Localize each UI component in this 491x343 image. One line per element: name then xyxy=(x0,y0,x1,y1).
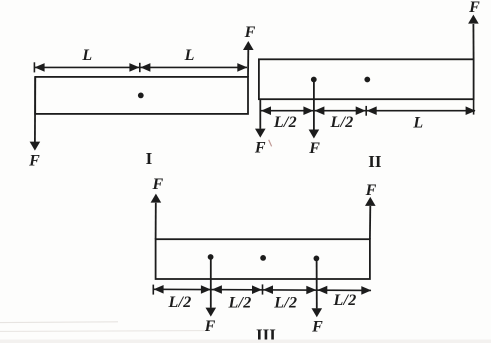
dimension arrowhead right (II) xyxy=(466,106,476,115)
center-of-mass dot (beam I) xyxy=(138,93,144,99)
svg-text:F: F xyxy=(244,24,256,41)
svg-text:F: F xyxy=(308,140,320,157)
force arrow F down at left end (I) xyxy=(34,77,36,142)
dimension line (beam I, spans 2L) xyxy=(35,66,247,68)
svg-text:L/2: L/2 xyxy=(273,114,297,131)
svg-text:I: I xyxy=(146,149,153,168)
stray pen mark near F (II) xyxy=(269,140,272,147)
svg-text:F: F xyxy=(254,139,266,156)
dimension line (beam II, below bar) xyxy=(260,110,475,112)
svg-text:F: F xyxy=(468,0,480,16)
svg-text:F: F xyxy=(204,318,216,335)
svg-text:F: F xyxy=(311,318,323,335)
dimension arrowhead right (I) xyxy=(237,63,247,72)
center dot b (beam III) xyxy=(260,255,266,261)
dimension arrowhead to t1-right (II) xyxy=(314,106,324,115)
force arrow F up at right end (III) xyxy=(369,206,371,239)
dimension arrowhead to t2-left (II) xyxy=(356,106,366,115)
dimension arrowhead to t2-right (II) xyxy=(367,106,377,115)
force arrow F up at left end (III) xyxy=(155,203,157,239)
faint scan shadow line upper (bottom-left) xyxy=(0,321,118,324)
svg-text:L/2: L/2 xyxy=(329,114,353,131)
dimension arrowhead to t3-left (III) xyxy=(306,286,316,295)
svg-text:L/2: L/2 xyxy=(227,294,251,311)
svg-text:L/2: L/2 xyxy=(167,294,191,311)
center dot a (beam II) xyxy=(311,77,317,83)
force arrow F down at 3L/2 (III) xyxy=(316,258,318,308)
dimension center tick (I) xyxy=(139,63,141,72)
dimension arrowhead to t1-left (III) xyxy=(201,285,211,294)
beam II (bar) xyxy=(259,59,474,99)
dimension tick t2 (II) xyxy=(365,106,367,116)
dimension end tick left (III) xyxy=(152,285,154,295)
svg-text:L: L xyxy=(184,47,195,64)
dimension arrowhead to t3-right (III) xyxy=(317,286,327,295)
faint scan shadow line lower (bottom-left) xyxy=(0,330,205,333)
dimension arrowhead to t2-left (III) xyxy=(252,285,262,294)
force arrow F up at right end (II) xyxy=(472,24,474,59)
beam III (bar) xyxy=(156,239,370,279)
force arrow F down at left end (II) xyxy=(259,99,261,129)
force arrow F up at right end (I) xyxy=(247,50,249,77)
force arrow F down at L/2 (II) xyxy=(313,80,315,130)
faint scan shadow band (bottom edge) xyxy=(0,340,491,343)
svg-text:F: F xyxy=(365,182,377,199)
center dot b (beam II) xyxy=(364,77,370,83)
force arrow F down at L/2 (III) xyxy=(210,257,212,308)
center dot c (beam III) xyxy=(314,256,320,262)
dimension end tick left (I) xyxy=(33,62,35,72)
svg-text:L/2: L/2 xyxy=(273,295,297,312)
dimension arrowhead to center-left (I) xyxy=(129,63,139,72)
dimension arrowhead to t2-right (III) xyxy=(263,285,273,294)
svg-text:F: F xyxy=(151,176,163,193)
dimension arrowhead to t1-right (III) xyxy=(212,285,222,294)
center dot a (beam III) xyxy=(208,254,214,260)
svg-text:L: L xyxy=(81,47,92,64)
svg-text:L: L xyxy=(412,115,423,132)
dimension tick t2 (III) xyxy=(262,284,264,294)
dimension arrowhead right (III) xyxy=(361,286,371,295)
dimension arrowhead left (II) xyxy=(261,106,271,115)
dimension arrowhead left (III) xyxy=(154,285,164,294)
beam I (bar) xyxy=(35,77,248,114)
dimension end tick right (II) xyxy=(473,99,475,114)
dimension line (beam III, below bar) xyxy=(154,289,372,290)
svg-text:II: II xyxy=(368,152,382,171)
dimension arrowhead left (I) xyxy=(35,63,45,72)
svg-text:F: F xyxy=(28,152,40,169)
dimension arrowhead to center-right (I) xyxy=(140,63,150,72)
dimension arrowhead to t1-left (II) xyxy=(303,106,313,115)
svg-text:L/2: L/2 xyxy=(332,292,356,309)
